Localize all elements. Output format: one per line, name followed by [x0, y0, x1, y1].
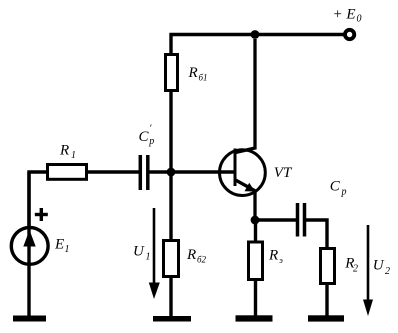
ground under Rb2: [153, 316, 191, 322]
svg-text:p: p: [341, 187, 347, 198]
wire Re bottom to ground: [254, 281, 257, 318]
wire R1 left to E1 branch: [29, 172, 47, 227]
wire emitter node to capacitor Cp: [255, 218, 297, 221]
arrow U2: [367, 225, 370, 305]
transistor VT: [220, 150, 266, 196]
wire capacitor Cp to resistor R2: [306, 220, 328, 248]
svg-text:R: R: [59, 143, 69, 159]
svg-text:E: E: [54, 237, 64, 253]
label + of E1: [35, 213, 48, 216]
svg-text:б1: б1: [199, 73, 208, 83]
wire base node down to resistor Rb2: [169, 172, 172, 241]
wire top supply rail: [170, 33, 345, 36]
capacitor Cp: [296, 203, 300, 237]
svg-text:C: C: [139, 129, 150, 145]
svg-text:1: 1: [146, 252, 151, 263]
svg-text:+ E: + E: [333, 7, 356, 23]
svg-text:2: 2: [385, 266, 390, 277]
resistor R1: [48, 165, 87, 180]
svg-text:2: 2: [353, 263, 358, 274]
svg-text:б2: б2: [197, 255, 207, 265]
svg-text:C: C: [330, 179, 341, 195]
node emitter junction: [251, 216, 260, 225]
capacitor C'p: [139, 155, 143, 190]
terminal +E0: [345, 30, 354, 39]
svg-text:R: R: [268, 248, 278, 264]
wire from rail down to resistor Rb1: [169, 33, 172, 55]
wire R1 right to capacitor C'p: [88, 170, 139, 173]
svg-text:U: U: [133, 244, 145, 260]
svg-text:R: R: [186, 247, 196, 263]
wire emitter node down to resistor Re: [254, 220, 257, 243]
svg-text:1: 1: [71, 150, 76, 161]
ground under E1: [13, 316, 46, 322]
ground under R2: [308, 315, 344, 321]
svg-text:R: R: [188, 65, 198, 81]
wire capacitor C'p to transistor base: [149, 170, 234, 173]
wire Rb1 bottom to base node: [169, 92, 172, 173]
svg-text:э: э: [279, 256, 283, 265]
svg-text:1: 1: [65, 244, 70, 255]
arrow U1: [153, 208, 156, 290]
svg-text:U: U: [373, 258, 385, 274]
node top rail / collector junction: [251, 30, 260, 39]
wire Rb2 bottom to ground: [169, 278, 172, 318]
resistor R2: [321, 249, 335, 284]
svg-text:p: p: [148, 136, 154, 147]
resistor Rb2: [164, 241, 179, 277]
source E1: [27, 172, 30, 318]
node base junction: [167, 168, 176, 177]
svg-text:VT: VT: [274, 165, 293, 181]
resistor Rb1: [166, 55, 178, 91]
wire R2 bottom to ground: [325, 285, 328, 318]
ground under Re: [236, 315, 273, 321]
resistor Re: [249, 242, 263, 280]
svg-text:0: 0: [357, 14, 362, 25]
